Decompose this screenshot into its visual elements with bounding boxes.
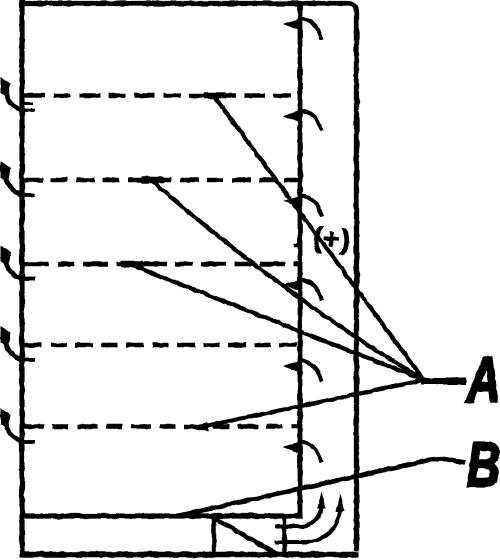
leader tail to label A — [422, 378, 466, 385]
leader line B — [173, 459, 465, 517]
left inlet arrow 3 — [1, 246, 36, 280]
wall hole arrow 2 — [283, 110, 322, 132]
top wall and right wall (rounded top-right corner) — [20, 4, 357, 552]
left inlet arrow 2 — [1, 162, 36, 196]
shelf dashed line 3 — [24, 262, 299, 267]
left inlet arrow 4 — [1, 327, 36, 361]
floor line — [21, 513, 303, 518]
bottom divider vertical — [282, 516, 287, 554]
step vertical — [212, 516, 217, 554]
wall hole arrow 5 — [283, 360, 322, 382]
left wall — [19, 0, 24, 557]
bottom flow arrow 1 — [275, 492, 326, 527]
wall tick — [294, 244, 302, 248]
bottom flow arrow 2 — [275, 494, 345, 543]
wall hole arrow 3 — [283, 195, 322, 217]
shelf dashed line 2 — [24, 178, 299, 183]
shelf dashed line 4 — [24, 343, 299, 348]
wall hole arrow 6 — [283, 441, 322, 463]
bottom wall — [20, 552, 359, 558]
left inlet arrow 1 — [1, 77, 36, 111]
wedge diagonal — [215, 519, 277, 555]
svg-text:A: A — [465, 344, 500, 416]
leader line A2 (from shelf 2) — [142, 180, 424, 380]
svg-text:(+): (+) — [312, 222, 352, 256]
inner wall — [298, 3, 303, 516]
svg-text:B: B — [467, 430, 500, 499]
left inlet arrow 5 — [1, 408, 36, 442]
leader line A1 (from shelf 1) — [204, 96, 424, 381]
shelf dashed line 5 — [24, 424, 299, 429]
wall hole arrow 4 — [283, 279, 322, 301]
leader line A3 (from shelf 3) — [121, 264, 424, 380]
leader line A4 (from shelf 5) — [189, 380, 424, 432]
shelf dashed line 1 — [24, 93, 299, 98]
wall hole arrow 1 — [283, 18, 322, 40]
